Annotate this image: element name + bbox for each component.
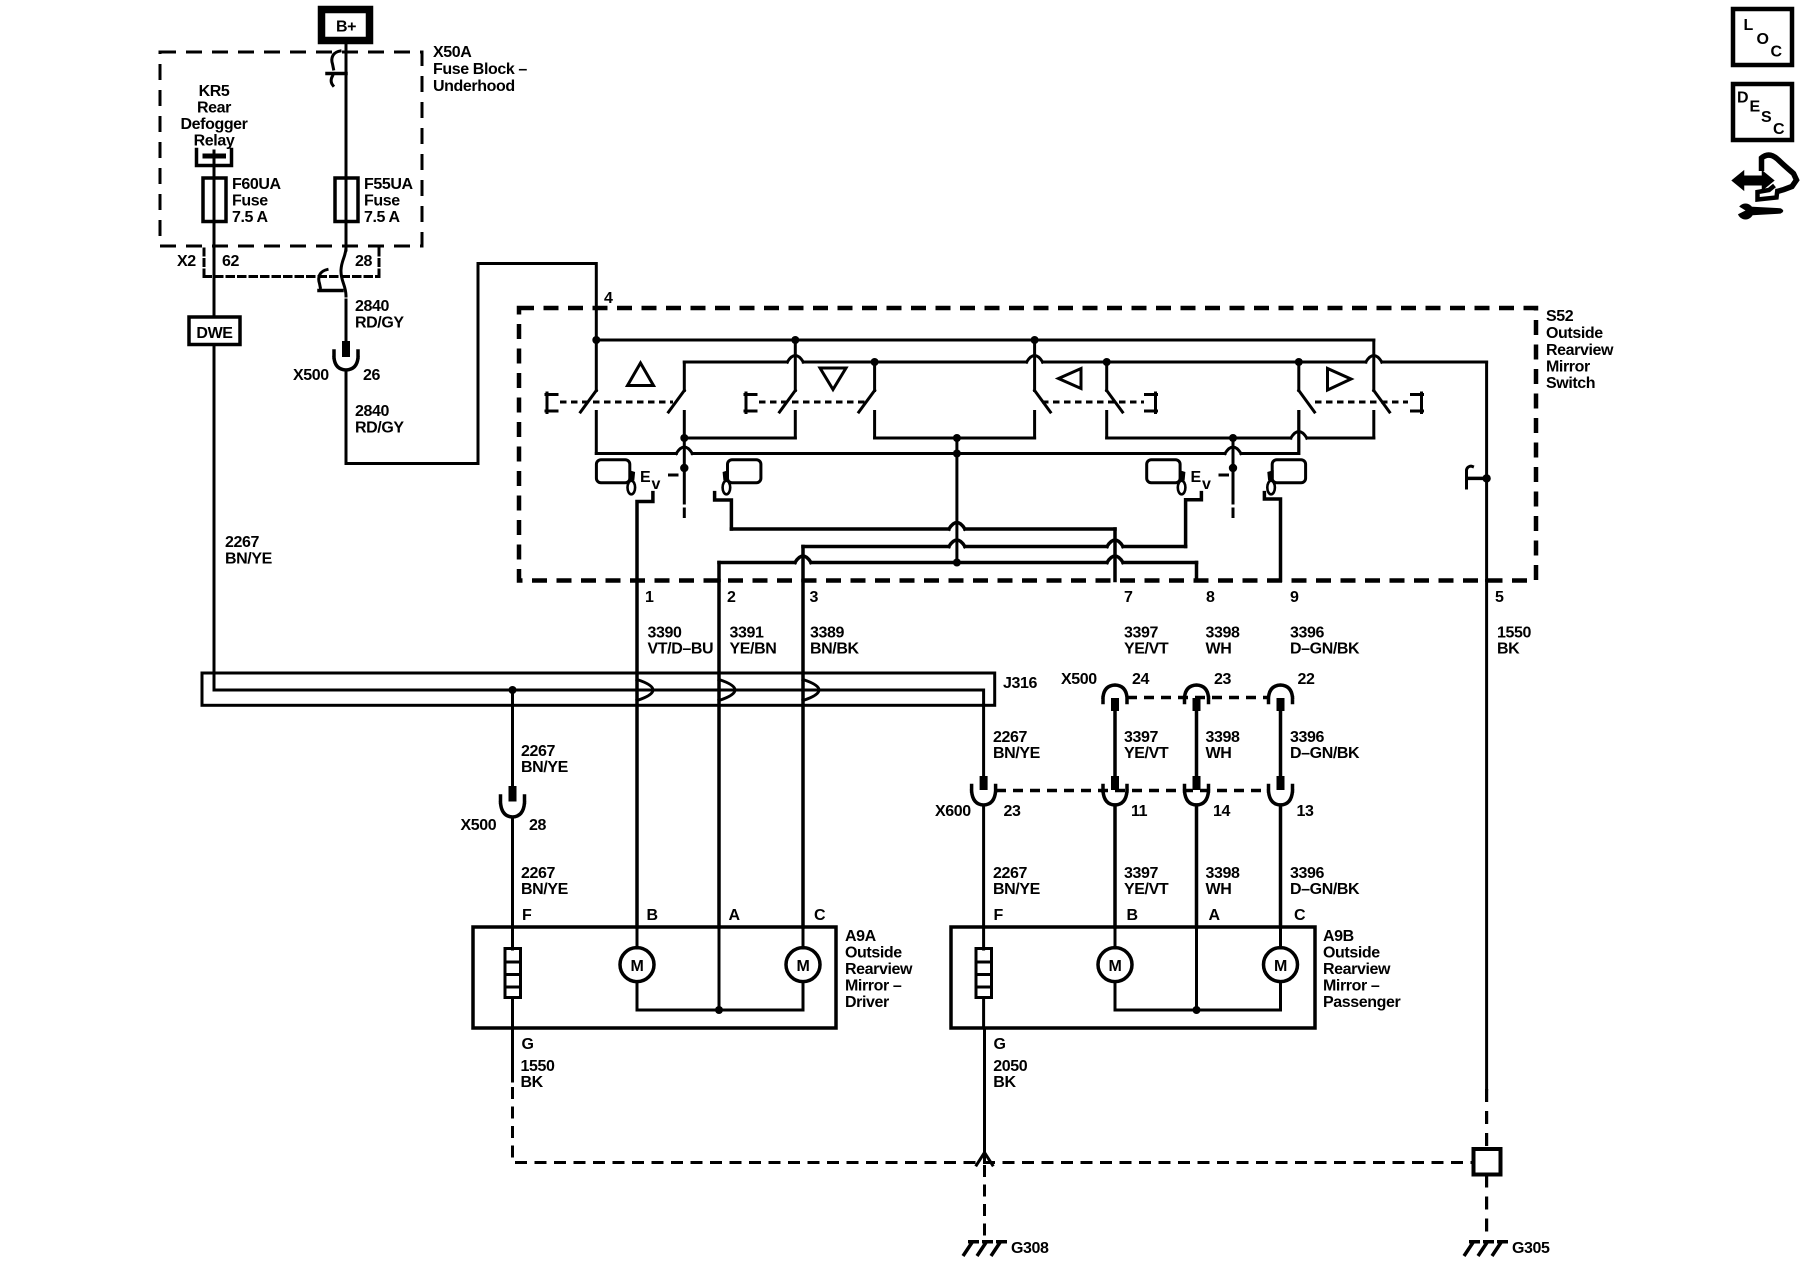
- svg-text:2050: 2050: [993, 1058, 1027, 1075]
- wire motor rail A9B: [1115, 982, 1281, 1010]
- wire jog with terminal hook below X2 pin 28: [319, 248, 346, 296]
- ground G305: [1464, 1241, 1508, 1256]
- svg-text:23: 23: [1214, 671, 1231, 688]
- svg-text:J316: J316: [1003, 675, 1037, 692]
- mirror assembly A9A box: [473, 927, 836, 1028]
- svg-text:D–GN/BK: D–GN/BK: [1290, 745, 1360, 762]
- svg-text:3398: 3398: [1206, 729, 1240, 746]
- wire third bus of S52: [596, 412, 1299, 454]
- inline connector X500 pin 23: [1185, 685, 1209, 711]
- switch right-right blade top riser: [1372, 340, 1375, 391]
- A9B label: [1323, 928, 1401, 1011]
- linkage dashed line down switch: [759, 401, 866, 404]
- svg-text:3397: 3397: [1124, 865, 1158, 882]
- svg-text:28: 28: [529, 817, 546, 834]
- wire label 2840 RD/GY lower: [355, 403, 404, 437]
- switch left-right blade bottom riser: [1105, 412, 1108, 439]
- svg-text:M: M: [1109, 958, 1122, 975]
- switch down-right blade top riser: [873, 362, 876, 391]
- wire DWE to J316 bus: [213, 345, 216, 691]
- svg-text:X500: X500: [1061, 671, 1097, 688]
- inline connector X500 pin 26: [334, 341, 358, 370]
- switch up-left blade bottom riser: [595, 412, 598, 454]
- motor M left A9B: [1098, 927, 1132, 982]
- A9A label: [845, 928, 913, 1011]
- svg-text:S52: S52: [1546, 308, 1574, 325]
- svg-text:YE/VT: YE/VT: [1124, 745, 1169, 762]
- dashed ground drop to G308: [983, 1165, 986, 1238]
- svg-text:Relay: Relay: [194, 133, 235, 150]
- S52 label: [1546, 308, 1614, 392]
- switch left-right blade: [1107, 391, 1123, 413]
- wire label 2050 BK: [993, 1058, 1027, 1091]
- dashed connector line X600 row: [996, 789, 1268, 793]
- wire cross link y438 right with hop: [1107, 432, 1374, 439]
- svg-text:2267: 2267: [521, 743, 555, 760]
- wire cross link up pair y438 left: [684, 437, 795, 440]
- wire label 3397 YE/VT row1: [1124, 625, 1169, 658]
- svg-text:B+: B+: [336, 19, 356, 36]
- inline connector X600 pin 13: [1269, 776, 1293, 805]
- svg-text:11: 11: [1131, 803, 1148, 820]
- svg-text:Outside: Outside: [1323, 945, 1380, 962]
- wire X500:28 to A9A pin F: [511, 817, 514, 927]
- wire label 2267 BN/YE right row3: [993, 865, 1041, 898]
- wire label 3390 VT/D-BU: [648, 625, 714, 658]
- switch down-left blade bottom riser: [794, 412, 797, 439]
- switch right-right blade bottom riser: [1372, 412, 1375, 439]
- contact terminal at pin 5 common: [1467, 466, 1491, 488]
- svg-text:2267: 2267: [993, 729, 1027, 746]
- svg-text:3: 3: [810, 589, 819, 606]
- wire F60UA through X2 to DWE: [213, 178, 216, 317]
- switch S52 dashed box: [519, 308, 1536, 581]
- label Ev right: [1191, 469, 1212, 493]
- svg-text:Fuse: Fuse: [232, 193, 268, 210]
- svg-text:Driver: Driver: [845, 994, 889, 1011]
- wire S52 pin 1 to A9A pin B: [635, 581, 639, 928]
- wire motor rail A9A: [637, 982, 803, 1010]
- label Ev left: [640, 469, 661, 493]
- mirror glass icon right A: [1147, 460, 1180, 483]
- wire Ev riser right: [1232, 438, 1235, 503]
- switch down-left blade: [780, 391, 796, 413]
- svg-text:7.5 A: 7.5 A: [232, 209, 268, 226]
- wire pin A to rail A9A: [718, 927, 721, 1010]
- inline connector X600 pin 23: [972, 776, 996, 805]
- svg-text:Outside: Outside: [1546, 325, 1603, 342]
- svg-text:3389: 3389: [810, 625, 844, 642]
- wire label 2267 BN/YE left: [225, 534, 273, 568]
- heater element A9B: [976, 927, 992, 1028]
- mirror assembly A9B box: [951, 927, 1315, 1028]
- connector terminal hook at B+ entry: [327, 51, 346, 86]
- wire mirror right A stub: [1186, 493, 1202, 547]
- wire label 1550 BK right: [1497, 625, 1531, 658]
- wire X500:26 to S52 pin 4 feed: [346, 264, 596, 464]
- node cross link junction middle: [953, 434, 961, 442]
- arrowhead at ground run junction: [977, 1153, 993, 1166]
- svg-text:Rearview: Rearview: [845, 961, 913, 978]
- svg-text:1550: 1550: [521, 1058, 555, 1075]
- wire label 3396 D-GN/BK row2: [1290, 729, 1360, 762]
- wire S52 pin 1 stub from mirror left A: [637, 493, 653, 581]
- wire B+ through fuse F55UA: [345, 73, 348, 250]
- wire X500:22 to X600:13: [1279, 711, 1283, 777]
- svg-text:M: M: [797, 958, 810, 975]
- wire X600:14 to A9B pin A: [1195, 805, 1199, 927]
- svg-text:62: 62: [222, 253, 239, 270]
- wire line C pin 2 to pin 8: [719, 556, 1197, 563]
- svg-text:3391: 3391: [730, 625, 764, 642]
- svg-text:C: C: [1294, 907, 1306, 924]
- svg-text:BN/YE: BN/YE: [521, 759, 569, 776]
- linkage dash Ev right: [1220, 474, 1228, 477]
- svg-text:RD/GY: RD/GY: [355, 420, 404, 437]
- svg-text:3398: 3398: [1206, 865, 1240, 882]
- navigation icon DESC box: [1733, 84, 1792, 140]
- svg-text:3397: 3397: [1124, 729, 1158, 746]
- svg-text:3396: 3396: [1290, 865, 1324, 882]
- mirror pivot flag right A: [1178, 470, 1186, 494]
- dashed ground run from A9A G: [513, 1087, 1474, 1163]
- svg-text:Mirror: Mirror: [1546, 359, 1590, 376]
- node Ev junction left: [680, 464, 688, 472]
- wire to X500 pin 26: [345, 300, 348, 342]
- relay KR5 contact symbol: [197, 150, 232, 166]
- switch right-left blade bottom riser: [1297, 412, 1300, 454]
- wire hop second bus over blade risers: [787, 356, 1382, 363]
- dashed segment pin5 to splice box: [1485, 1089, 1488, 1149]
- mechanical linkage dash below Ev junction right: [1232, 509, 1235, 517]
- node cross link junction right: [1229, 434, 1237, 442]
- linkage bracket right of right switch: [1412, 393, 1423, 413]
- heater element A9A: [505, 927, 521, 1028]
- svg-text:24: 24: [1132, 671, 1149, 688]
- svg-text:VT/D–BU: VT/D–BU: [648, 641, 714, 658]
- svg-text:Defogger: Defogger: [180, 116, 247, 133]
- svg-text:Rear: Rear: [197, 100, 231, 117]
- motor M right A9A: [786, 927, 820, 982]
- svg-text:A9A: A9A: [845, 928, 877, 945]
- svg-text:22: 22: [1298, 671, 1315, 688]
- svg-text:M: M: [1274, 958, 1287, 975]
- inline connector X600 pin 14: [1185, 776, 1209, 805]
- node Ev junction right: [1229, 464, 1237, 472]
- svg-text:B: B: [647, 907, 658, 924]
- svg-text:14: 14: [1213, 803, 1230, 820]
- F55UA label: [364, 176, 414, 226]
- wire X500:23 to X600:14: [1195, 711, 1199, 777]
- svg-text:Rearview: Rearview: [1546, 342, 1614, 359]
- switch down-right blade bottom riser: [873, 412, 876, 439]
- svg-text:E: E: [1191, 469, 1202, 486]
- svg-text:2: 2: [727, 589, 736, 606]
- wire label 3391 YE/BN: [730, 625, 777, 658]
- switch up-right blade bottom riser to Ev junction: [683, 412, 686, 504]
- svg-text:F: F: [994, 907, 1004, 924]
- svg-text:WH: WH: [1206, 881, 1232, 898]
- wire X600:11 to A9B pin B: [1113, 805, 1117, 927]
- svg-text:BN/YE: BN/YE: [993, 881, 1041, 898]
- DWE box: [189, 317, 240, 345]
- linkage dashed line left switch: [1042, 401, 1144, 404]
- wire relay to fuse F60UA: [213, 158, 216, 180]
- switch right-left blade top riser: [1297, 362, 1300, 391]
- svg-text:28: 28: [355, 253, 372, 270]
- svg-text:BK: BK: [1497, 641, 1520, 658]
- svg-text:D–GN/BK: D–GN/BK: [1290, 881, 1360, 898]
- wire A9B pin G down to ground run: [983, 1028, 986, 1160]
- svg-text:C: C: [1771, 44, 1783, 61]
- svg-text:X500: X500: [461, 817, 497, 834]
- svg-text:9: 9: [1290, 589, 1299, 606]
- svg-text:F: F: [522, 907, 532, 924]
- wire label 3398 WH row3: [1206, 865, 1240, 898]
- node line C junction: [953, 559, 961, 567]
- wire splice bus center line: [214, 690, 984, 705]
- battery feed B+: [322, 10, 370, 41]
- svg-text:BN/YE: BN/YE: [521, 881, 569, 898]
- wire S52 pin 5 down 1550 BK: [1485, 581, 1488, 1090]
- svg-text:v: v: [1202, 476, 1211, 493]
- wire splice to X500 pin 28: [511, 690, 514, 787]
- svg-text:2267: 2267: [225, 534, 259, 551]
- svg-text:WH: WH: [1206, 745, 1232, 762]
- wire hop third bus over Ev risers: [676, 447, 1241, 454]
- X500 26 labels: [293, 367, 380, 384]
- wire line B pin 3 to mirror right A stub: [803, 540, 1186, 547]
- wire label 3397 YE/VT row2: [1124, 729, 1169, 762]
- svg-text:BK: BK: [993, 1074, 1016, 1091]
- wire S52 pin 2: [717, 563, 721, 581]
- svg-text:Rearview: Rearview: [1323, 961, 1391, 978]
- wire S52 pin 9 stub from mirror right B: [1264, 493, 1280, 581]
- wire S52 pin 3: [801, 547, 805, 581]
- X2 pin labels: [177, 253, 372, 270]
- svg-text:Mirror –: Mirror –: [1323, 978, 1380, 995]
- node splice branch X500 28: [509, 686, 517, 694]
- splice box S: [1474, 1149, 1501, 1175]
- wire mirror left B to line A: [715, 493, 732, 529]
- svg-text:RD/GY: RD/GY: [355, 315, 404, 332]
- mirror pivot flag right B: [1267, 470, 1275, 494]
- svg-text:X50A: X50A: [433, 44, 472, 61]
- mechanical linkage dash below Ev junction left: [683, 509, 686, 517]
- svg-text:2267: 2267: [993, 865, 1027, 882]
- wire X600:13 to A9B pin C: [1279, 805, 1283, 927]
- svg-text:BN/YE: BN/YE: [993, 745, 1041, 762]
- svg-text:26: 26: [363, 367, 380, 384]
- wire A9A pin G down: [511, 1028, 514, 1081]
- mirror pivot flag left A: [628, 470, 636, 494]
- wire label 3398 WH row1: [1206, 625, 1240, 658]
- linkage dashed line right switch: [1315, 401, 1408, 404]
- svg-text:BK: BK: [521, 1074, 544, 1091]
- svg-text:1: 1: [645, 589, 654, 606]
- svg-text:7.5 A: 7.5 A: [364, 209, 400, 226]
- svg-text:M: M: [631, 958, 644, 975]
- svg-text:X2: X2: [177, 253, 196, 270]
- svg-text:E: E: [1750, 99, 1761, 116]
- switch right-left blade: [1299, 391, 1315, 413]
- wire label 3396 D-GN/BK row3: [1290, 865, 1360, 898]
- symbol triangle left: [1059, 369, 1082, 389]
- svg-text:3398: 3398: [1206, 625, 1240, 642]
- fuse block X50A dashed box: [160, 52, 422, 246]
- switch down-right blade: [859, 391, 875, 413]
- wire line A mirror left B to pin 7: [731, 523, 1115, 530]
- wire splice to X600 pin 23: [982, 705, 985, 777]
- relay KR5 label: [180, 83, 247, 150]
- svg-text:4: 4: [604, 290, 613, 307]
- switch left-left blade: [1035, 391, 1051, 413]
- switch up-right blade top riser: [683, 362, 686, 391]
- connector row X600 labels: [935, 803, 1314, 820]
- node top bus junctions: [592, 336, 600, 344]
- svg-text:E: E: [640, 469, 651, 486]
- pin letter labels A9A: [522, 907, 826, 924]
- svg-text:7: 7: [1124, 589, 1133, 606]
- svg-text:YE/VT: YE/VT: [1124, 641, 1169, 658]
- ground G308: [963, 1241, 1007, 1256]
- node second bus junctions: [871, 358, 879, 366]
- svg-text:2267: 2267: [521, 865, 555, 882]
- svg-text:F55UA: F55UA: [364, 176, 414, 193]
- svg-text:D: D: [1737, 90, 1748, 107]
- X50A label: [433, 44, 527, 95]
- svg-text:2840: 2840: [355, 298, 389, 315]
- wire common riser center: [955, 438, 958, 563]
- symbol triangle right: [1328, 369, 1352, 391]
- svg-text:WH: WH: [1206, 641, 1232, 658]
- wire S52 pin 8: [1195, 563, 1199, 581]
- svg-text:Outside: Outside: [845, 945, 902, 962]
- switch down-left blade top riser: [794, 340, 797, 391]
- fuse F60UA: [203, 178, 226, 222]
- wire pin A to rail A9B: [1195, 927, 1198, 1010]
- pin letter labels A9B: [994, 907, 1307, 924]
- svg-text:DWE: DWE: [196, 325, 233, 342]
- mirror pivot flag left B: [723, 470, 731, 494]
- linkage dash Ev left: [670, 474, 678, 477]
- wire label 3398 WH row2: [1206, 729, 1240, 762]
- svg-text:O: O: [1757, 31, 1769, 48]
- switch up-left blade top riser: [595, 340, 598, 391]
- svg-text:X600: X600: [935, 803, 971, 820]
- svg-text:L: L: [1744, 17, 1754, 34]
- connector row X500 pins 24 23 22: [1061, 671, 1315, 688]
- svg-text:Underhood: Underhood: [433, 78, 515, 95]
- wire B+ to fuse block: [345, 44, 348, 75]
- inline connector X600 pin 11: [1103, 776, 1127, 805]
- svg-text:2840: 2840: [355, 403, 389, 420]
- navigation icon arrows and wrench: [1733, 155, 1797, 219]
- switch left-left blade top riser: [1033, 340, 1036, 391]
- svg-text:YE/BN: YE/BN: [730, 641, 777, 658]
- svg-text:8: 8: [1206, 589, 1215, 606]
- svg-text:Fuse Block –: Fuse Block –: [433, 61, 527, 78]
- svg-text:13: 13: [1297, 803, 1314, 820]
- F60UA label: [232, 176, 282, 226]
- wire cross link y438 middle: [875, 437, 1035, 440]
- mirror glass icon left A: [596, 460, 629, 483]
- wire label 1550 BK bottom: [521, 1058, 555, 1091]
- wire label 2267 BN/YE left row3: [521, 865, 569, 898]
- svg-text:A9B: A9B: [1323, 928, 1354, 945]
- dashed connector line X500 row: [1127, 696, 1269, 700]
- linkage bracket right of left switch: [1146, 393, 1157, 413]
- motor M left A9A: [620, 927, 654, 982]
- connector X2 band: [204, 249, 379, 277]
- svg-text:23: 23: [1004, 803, 1021, 820]
- mirror glass icon right B: [1272, 460, 1305, 483]
- switch right-right blade: [1374, 391, 1390, 413]
- svg-text:C: C: [1773, 121, 1785, 138]
- wire S52 pin 3 to A9A pin C: [801, 581, 805, 928]
- wire label 3396 D-GN/BK row1: [1290, 625, 1360, 658]
- svg-text:KR5: KR5: [199, 83, 230, 100]
- wire S52 pin 2 to A9A pin A: [717, 581, 721, 928]
- switch up-right blade: [669, 391, 685, 413]
- wire label 2267 BN/YE right row2: [993, 729, 1041, 762]
- svg-text:C: C: [814, 907, 826, 924]
- wire X500:24 to X600:11: [1113, 711, 1117, 777]
- wire S52 pin 5 common: [1485, 362, 1488, 581]
- splice bus J316 outline: [202, 673, 995, 705]
- svg-text:G308: G308: [1011, 1240, 1049, 1257]
- svg-text:F60UA: F60UA: [232, 176, 282, 193]
- wire hop arcs on splice bus at pins 1 2 3: [637, 680, 819, 701]
- svg-text:B: B: [1127, 907, 1138, 924]
- svg-text:BN/YE: BN/YE: [225, 551, 273, 568]
- wire X600:23 to A9B pin F: [982, 805, 985, 927]
- node cross link junction left: [680, 434, 688, 442]
- switch up-left blade: [581, 391, 597, 413]
- svg-text:G: G: [522, 1036, 534, 1053]
- linkage dashed line up switch: [560, 401, 673, 404]
- svg-text:G: G: [994, 1036, 1006, 1053]
- svg-text:G305: G305: [1512, 1240, 1550, 1257]
- svg-text:Mirror –: Mirror –: [845, 978, 902, 995]
- symbol triangle up: [628, 363, 654, 386]
- dashed ground drop to G305: [1485, 1175, 1488, 1239]
- wire top bus of S52: [596, 339, 1374, 342]
- svg-text:Switch: Switch: [1546, 375, 1595, 392]
- wire S52 pin 7: [1113, 529, 1117, 581]
- wire label 3397 YE/VT row3: [1124, 865, 1169, 898]
- svg-text:3390: 3390: [648, 625, 682, 642]
- mirror glass icon left B: [728, 460, 761, 483]
- svg-text:X500: X500: [293, 367, 329, 384]
- navigation icon LOC box: [1733, 9, 1792, 65]
- pin labels S52 bottom: [645, 589, 1504, 606]
- svg-text:D–GN/BK: D–GN/BK: [1290, 641, 1360, 658]
- symbol triangle down: [820, 368, 846, 390]
- wire label 3389 BN/BK: [810, 625, 860, 658]
- svg-text:3397: 3397: [1124, 625, 1158, 642]
- inline connector X500 pin 22: [1269, 685, 1293, 711]
- inline connector X500 pin 28: [501, 786, 525, 817]
- svg-text:Fuse: Fuse: [364, 193, 400, 210]
- linkage bracket E left of up switch: [546, 393, 557, 413]
- linkage bracket E left of down switch: [745, 393, 756, 413]
- inline connector X500 pin 24: [1103, 685, 1127, 711]
- switch left-right blade top riser: [1105, 362, 1108, 391]
- switch left-left blade bottom riser: [1033, 412, 1036, 439]
- svg-text:BN/BK: BN/BK: [810, 641, 860, 658]
- wire label 2840 RD/GY upper: [355, 298, 404, 332]
